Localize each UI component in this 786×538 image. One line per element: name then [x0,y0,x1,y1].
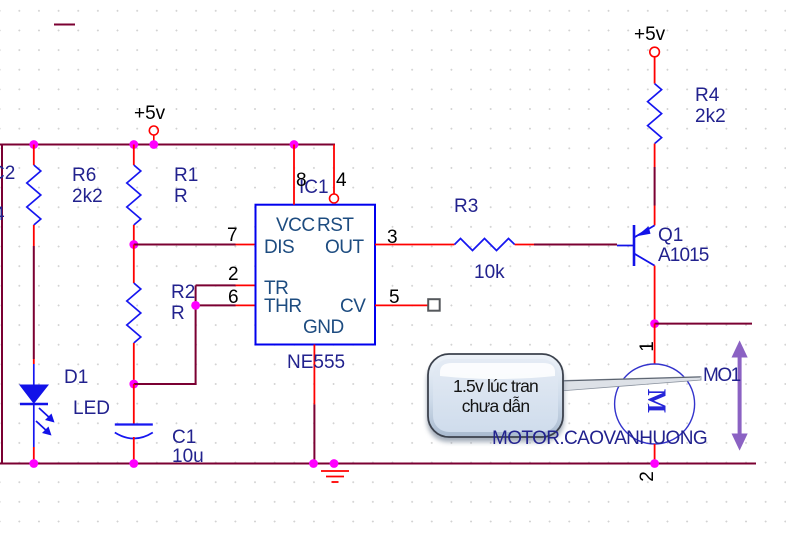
pin number 2 [228,265,239,284]
label R3 [454,197,478,216]
wire pin 5 [375,299,440,311]
pin name RST [317,216,354,235]
motor MO1 [615,324,695,464]
label MOTOR.CAOVANHUONG [492,429,707,448]
junction pin6 wire [191,301,200,310]
label IC1 [299,178,329,197]
resistor R6 [27,145,41,247]
junction rail pin8 [290,140,299,149]
pin 4 RST lead [330,145,339,204]
label C1 [172,428,196,447]
wire bottom ground rail [0,463,756,465]
junction rail +5v [149,140,158,149]
junction rail-R6 [29,140,38,149]
pin name VCC [276,216,315,235]
label D1 [64,368,88,387]
power terminal +5v left [149,126,158,145]
pin name GND [303,318,344,337]
pin number 4 [336,171,347,190]
arrow annotation (purple double arrow) [732,340,748,450]
junction R1-pin7 [129,240,138,249]
junction ground symbol [330,459,339,468]
pin name OUT [325,238,364,257]
junction C1-ground [129,459,138,468]
wire pin 7 [134,244,256,246]
pin 8 VCC lead [293,145,295,205]
callout text [428,376,563,416]
junction collector-motor [650,319,659,328]
wire C2 vertical at left edge [1,145,3,464]
resistor R2 [127,245,141,385]
pin name TR [264,279,288,298]
label MO1 [703,366,740,385]
junction R2-C1 [129,380,138,389]
label C1 value [172,447,204,466]
label R3 value 10k [474,263,505,282]
pin number 7 [227,226,238,245]
pin name DIS [264,238,294,257]
pin number 8 [296,171,307,190]
label NE555 [287,353,345,372]
label C2 value 4 [0,205,5,224]
wire R2/C1 to pin6 [134,285,196,384]
label R2 [171,283,195,302]
capacitor C1 [115,384,153,464]
label +5v right [634,25,665,44]
wire stub top-left [54,24,75,26]
label C2 [0,164,15,183]
label R1 value [174,187,188,206]
LED D1 [20,359,55,464]
power terminal +5v right [650,47,660,83]
pin number 6 [228,288,239,307]
label R2 value [171,304,185,323]
IC ground pin lead [313,345,315,464]
label Q1 value A1015 [658,246,708,265]
label R4 value [695,107,726,126]
pin number 5 [389,288,400,307]
label R1 [174,166,198,185]
pin number 3 [387,228,398,247]
label R6 value [72,187,103,206]
IC U1 NE555 body [256,205,376,345]
wire R6 to LED [33,246,35,359]
label LED [73,399,110,418]
resistor R4 [648,84,662,206]
junction rail-R1 [129,140,138,149]
wire pin 6 [196,304,256,306]
callout leader [560,377,701,392]
motor pin number 1 [637,341,656,352]
label +5v left [134,104,165,123]
motor pin number 2 [637,471,656,482]
resistor R1 [127,145,141,245]
junction ground-LED [29,459,38,468]
wire pin 2 [196,284,256,286]
label R6 [72,166,96,185]
wire top +5v rail [0,144,335,146]
label Q1 [658,226,683,245]
transistor Q1 [617,206,655,324]
junction motor-ground [650,459,659,468]
wire pin 3 and resistor R3 [375,239,617,251]
wire collector to right [655,323,752,325]
label R4 [695,86,719,105]
pin name THR [264,297,302,316]
motor letter M [636,381,676,421]
callout bubble [427,354,564,442]
junction IC ground [309,459,318,468]
ground symbol [321,471,349,482]
pin name CV [340,297,365,316]
